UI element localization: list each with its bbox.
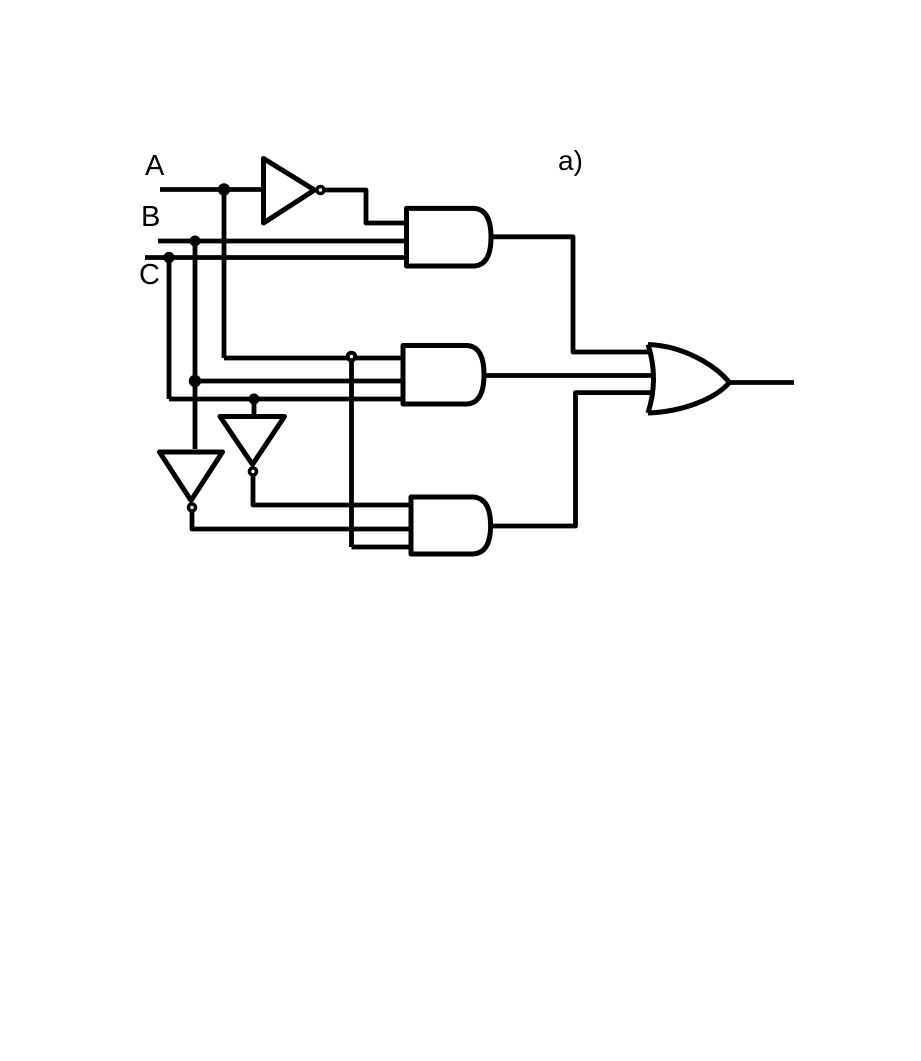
and-gate U4 (top): [407, 208, 492, 266]
inverter U2 bubble: [189, 504, 196, 511]
wire C vertical branch: [167, 258, 172, 400]
svg-text:B: B: [141, 201, 160, 233]
wire B branch to AND2 pin2: [195, 379, 403, 384]
wire AND2 output to OR pin2: [484, 373, 653, 378]
junction B branch dot: [189, 375, 201, 387]
junction C branch dot: [249, 394, 260, 405]
svg-text:A: A: [145, 150, 165, 182]
wire input A horizontal: [160, 187, 263, 192]
junction ring on A branch: [348, 353, 356, 361]
inverter U2 triangle (B, pointing down): [160, 452, 223, 501]
inverter U1 triangle: [264, 159, 315, 224]
wire A branch to AND2 pin1: [224, 356, 403, 361]
svg-text:a): a): [558, 145, 583, 176]
wire input C horizontal to AND1 pin3: [145, 255, 406, 260]
wire AND1 output to OR pin1: [491, 237, 651, 352]
and-gate U5 (middle): [403, 346, 484, 405]
junction C dot: [163, 252, 174, 263]
wire C branch to AND2 pin3: [169, 397, 403, 402]
wire stub to inverter U3 input: [252, 399, 257, 414]
wire B vertical branch down to inverter U2: [193, 241, 198, 449]
or-gate U7: [648, 345, 729, 414]
wire OR output: [729, 380, 794, 385]
inverter U1 bubble: [317, 187, 324, 194]
wire U3 output to AND3 pin1: [253, 477, 411, 506]
junction A dot: [218, 183, 230, 195]
svg-text:C: C: [139, 259, 160, 291]
inverter U3 triangle (C, pointing down): [220, 417, 285, 465]
wire input B horizontal to AND1 pin2: [158, 239, 406, 244]
wire U2 output to AND3 pin2: [192, 513, 411, 530]
wire A vertical branch: [222, 190, 227, 359]
inverter U3 bubble: [250, 468, 257, 475]
wire A to AND3 pin3: [352, 545, 412, 550]
and-gate U6 (bottom): [411, 497, 491, 554]
wire long vertical A to AND3: [349, 359, 354, 547]
wire U1 output to AND1 pin1: [326, 190, 407, 223]
junction B dot: [190, 236, 201, 247]
wire AND3 output to OR pin3: [491, 393, 652, 526]
